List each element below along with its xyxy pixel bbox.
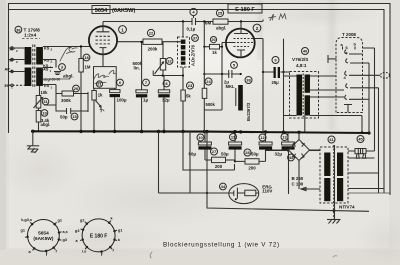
svg-text:g1: g1 bbox=[58, 219, 62, 223]
svg-text:32μ: 32μ bbox=[275, 152, 283, 157]
svg-text:E 180 F: E 180 F bbox=[90, 233, 108, 239]
handwritten 500k scribble bbox=[60, 47, 77, 61]
svg-text:ES: ES bbox=[44, 83, 50, 88]
svg-text:23: 23 bbox=[188, 83, 193, 88]
potentiometer (21) 1k bbox=[92, 81, 104, 132]
wire: NT left input bbox=[310, 150, 321, 152]
wire: bottom frame ledge bbox=[348, 192, 390, 194]
ground symbol left bbox=[27, 131, 39, 153]
capacitor (8) 32u bbox=[158, 76, 170, 132]
wire: anode line bbox=[282, 71, 284, 73]
svg-text:40: 40 bbox=[303, 49, 308, 54]
resistor (20) 1k grid stopper bbox=[203, 20, 223, 55]
choke (37) A.Dr.Z/V76 bbox=[178, 22, 199, 91]
svg-text:a,s: a,s bbox=[63, 230, 68, 234]
svg-text:1:2x4: 1:2x4 bbox=[24, 33, 37, 39]
capacitor (5) 2u MKL bbox=[224, 62, 237, 89]
wire: ground rail bbox=[31, 130, 371, 135]
resistor (27) 200 bbox=[211, 148, 236, 169]
resistor (25) 6M abgl. bbox=[205, 9, 228, 30]
capacitor (4) 0.1u bbox=[187, 8, 198, 31]
wire: secondary taps bbox=[39, 60, 57, 96]
label box E 180 F bbox=[228, 4, 262, 13]
svg-text:NT/V74: NT/V74 bbox=[339, 205, 355, 210]
svg-text:24: 24 bbox=[206, 79, 211, 84]
resistor (19) 3,4k abgl. bbox=[36, 108, 50, 132]
capacitor (9) 25u bbox=[262, 57, 290, 86]
svg-text:200: 200 bbox=[215, 164, 223, 169]
resistor (22) 200k bbox=[117, 29, 183, 51]
svg-text:A.Dr.Z/V76: A.Dr.Z/V76 bbox=[191, 44, 196, 66]
wire: NT right links bbox=[348, 158, 384, 189]
svg-text:21: 21 bbox=[97, 83, 101, 87]
tube V1 (1) 5654 bbox=[89, 22, 127, 58]
svg-text:abgl.: abgl. bbox=[41, 122, 51, 127]
resistor (23) 5k bbox=[181, 82, 194, 132]
svg-text:25μ: 25μ bbox=[272, 80, 280, 85]
capacitor (12) 50u bbox=[251, 132, 289, 157]
resistor (28) 200 bbox=[235, 149, 266, 170]
socket diagram 5654 bbox=[21, 218, 68, 257]
capacitor (10) 50u bbox=[189, 132, 212, 160]
svg-text:500k: 500k bbox=[206, 102, 216, 107]
svg-text:45: 45 bbox=[358, 137, 363, 142]
svg-text:g3: g3 bbox=[63, 238, 67, 242]
transformer T179/8 (36) bbox=[5, 26, 53, 89]
svg-text:1M: 1M bbox=[85, 65, 91, 70]
svg-text:12: 12 bbox=[260, 135, 265, 140]
svg-text:200k: 200k bbox=[148, 47, 158, 52]
svg-text:(6AK5W): (6AK5W) bbox=[112, 8, 135, 14]
svg-text:44: 44 bbox=[221, 184, 226, 189]
svg-text:T 2008: T 2008 bbox=[342, 32, 356, 37]
capacitor (15) 50p bbox=[60, 108, 78, 120]
wire: x207 long run bbox=[206, 132, 369, 212]
handwriting box (correction note) bbox=[94, 67, 117, 89]
svg-text:abgl.: abgl. bbox=[63, 74, 74, 79]
wire: OT left bbox=[284, 39, 305, 132]
label box 5654 (6AK5W) bbox=[92, 6, 135, 15]
svg-text:V76/2/S: V76/2/S bbox=[292, 57, 308, 62]
svg-text:37: 37 bbox=[193, 36, 198, 41]
svg-text:AP: AP bbox=[5, 66, 11, 71]
svg-text:Blockierungsstellung 1 (wie V: Blockierungsstellung 1 (wie V 72) bbox=[163, 242, 280, 249]
svg-text:50μ: 50μ bbox=[251, 152, 259, 157]
capacitor (6) 100u bbox=[110, 79, 127, 132]
wire: NT tap arrow bbox=[301, 187, 320, 190]
svg-text:200: 200 bbox=[248, 165, 256, 170]
connector T2008 bbox=[336, 32, 363, 113]
svg-text:(6AK5W): (6AK5W) bbox=[33, 236, 53, 242]
svg-text:MKL: MKL bbox=[226, 84, 236, 89]
svg-text:g1: g1 bbox=[118, 229, 122, 233]
svg-text:4,8:1: 4,8:1 bbox=[296, 63, 307, 68]
capacitor (11) 50u bbox=[221, 130, 242, 162]
wire: cathode bus y78 bbox=[103, 54, 184, 76]
svg-text:32: 32 bbox=[167, 59, 172, 64]
handwritten 4M bbox=[269, 14, 286, 21]
capacitor (7) 1u bbox=[136, 41, 150, 132]
wire: OT right taps bbox=[310, 76, 363, 134]
ground symbol NT bbox=[327, 220, 341, 224]
svg-text:18: 18 bbox=[84, 55, 89, 60]
svg-text:10k: 10k bbox=[41, 90, 49, 95]
svg-text:13: 13 bbox=[282, 135, 287, 140]
trimmer (3) abgl. bbox=[42, 64, 74, 82]
wire: anode B+ rail y21.5 bbox=[103, 20, 263, 23]
potentiometer (31) 10k bbox=[34, 90, 49, 108]
svg-text:C 100: C 100 bbox=[292, 182, 304, 187]
svg-text:32μ: 32μ bbox=[162, 97, 170, 102]
svg-text:B 250: B 250 bbox=[292, 176, 304, 181]
wire: filter return bbox=[159, 132, 235, 194]
svg-text:k,g3,s: k,g3,s bbox=[21, 218, 32, 222]
svg-text:6M: 6M bbox=[205, 21, 211, 26]
svg-text:36: 36 bbox=[16, 27, 21, 32]
wire: right bus mesh bbox=[363, 48, 391, 193]
svg-text:g2: g2 bbox=[80, 219, 84, 223]
element (38) Bv2367/3 bbox=[236, 77, 252, 122]
socket diagram E180F bbox=[75, 217, 122, 258]
svg-text:1k: 1k bbox=[212, 50, 217, 55]
svg-text:i.s: i.s bbox=[82, 250, 86, 254]
resistor (18) 1M bbox=[79, 45, 91, 132]
resistor (26) 300k bbox=[44, 85, 88, 112]
svg-text:Bv2367/3: Bv2367/3 bbox=[246, 102, 251, 121]
svg-text:5654: 5654 bbox=[38, 231, 49, 237]
wire: secondary to grid bbox=[43, 46, 91, 48]
transformer (40) V76/2/S output bbox=[290, 48, 319, 119]
wire: g2 line to screen node bbox=[255, 39, 264, 132]
wire: grid return bbox=[203, 43, 242, 111]
svg-text:0,1μ: 0,1μ bbox=[187, 27, 196, 32]
svg-text:27: 27 bbox=[212, 149, 217, 154]
rectifier (43) B250 C100 bbox=[266, 132, 321, 194]
wire: input stubs from left frame bbox=[9, 47, 25, 87]
svg-text:300k: 300k bbox=[61, 98, 71, 103]
svg-text:100μ: 100μ bbox=[117, 97, 127, 102]
resistor (24) 500k bbox=[202, 22, 215, 132]
svg-text:20: 20 bbox=[211, 38, 215, 42]
potentiometer (32) 500k lin bbox=[133, 42, 173, 76]
svg-text:28: 28 bbox=[245, 150, 250, 155]
svg-text:abgl-30-90: abgl-30-90 bbox=[44, 78, 61, 82]
svg-text:22: 22 bbox=[149, 31, 154, 36]
svg-text:10: 10 bbox=[198, 135, 203, 140]
svg-text:50μ: 50μ bbox=[221, 152, 229, 157]
svg-text:25: 25 bbox=[218, 11, 223, 16]
ERG 110V (44) bbox=[159, 183, 273, 204]
fuse (45) bbox=[348, 136, 375, 159]
svg-text:41: 41 bbox=[329, 137, 334, 142]
svg-text:E 180 F: E 180 F bbox=[235, 7, 255, 13]
wire: jack line bbox=[328, 55, 337, 63]
svg-text:19: 19 bbox=[42, 111, 47, 116]
svg-text:5654: 5654 bbox=[95, 8, 108, 14]
svg-text:1μ: 1μ bbox=[143, 97, 148, 102]
svg-text:50p: 50p bbox=[60, 115, 68, 120]
svg-text:lin.: lin. bbox=[134, 66, 140, 71]
svg-text:15: 15 bbox=[72, 114, 77, 119]
svg-text:110V: 110V bbox=[262, 189, 272, 194]
capacitor (13) 32u bbox=[275, 132, 295, 156]
svg-text:g1: g1 bbox=[21, 229, 25, 233]
transformer (41) NT/V74 bbox=[320, 136, 355, 219]
tube V2 (2) E180F bbox=[226, 22, 261, 58]
svg-text:1k: 1k bbox=[98, 92, 103, 97]
svg-text:5k: 5k bbox=[186, 94, 191, 99]
svg-text:31: 31 bbox=[43, 99, 48, 104]
svg-text:43: 43 bbox=[289, 155, 294, 160]
lamp (dashed circle) bbox=[380, 72, 389, 78]
svg-text:26: 26 bbox=[74, 86, 79, 91]
svg-text:abgl.: abgl. bbox=[216, 26, 226, 31]
svg-text:g3: g3 bbox=[75, 229, 79, 233]
svg-text:38: 38 bbox=[246, 78, 251, 83]
